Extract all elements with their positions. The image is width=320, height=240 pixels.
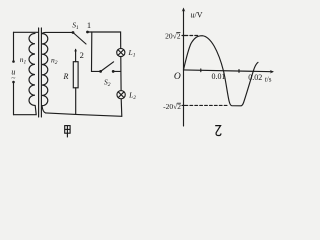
svg-text:L2: L2 xyxy=(128,91,136,102)
sine curve xyxy=(184,36,259,106)
wire: secondary bottom connector xyxy=(42,106,46,113)
y tick -20sqrt2 xyxy=(182,104,185,106)
wire: primary bottom xyxy=(14,106,37,115)
wire: primary left vertical (top segment) xyxy=(13,32,15,60)
svg-text:0.02: 0.02 xyxy=(248,73,262,82)
switch S2 right contact xyxy=(112,70,115,73)
svg-text:t/s: t/s xyxy=(265,76,272,84)
x-axis tick 0.005 xyxy=(200,69,202,72)
y-axis arrowhead xyxy=(182,8,186,12)
wire: between lamps xyxy=(120,57,122,91)
y-axis xyxy=(183,9,185,126)
x-axis arrowhead xyxy=(270,70,274,74)
svg-text:n2: n2 xyxy=(51,56,58,66)
wire: middle branch vertical xyxy=(92,32,101,71)
overbar for 20sqrt2 xyxy=(176,32,180,34)
AC source u terminal dots xyxy=(12,60,15,63)
x-axis xyxy=(184,70,273,72)
wire: primary left vertical (bottom segment) xyxy=(13,83,15,114)
switch S2 left contact xyxy=(99,70,102,73)
lamp L1 xyxy=(117,48,125,56)
svg-text:u/V: u/V xyxy=(191,11,203,20)
wire: top right from node 1 xyxy=(88,32,121,48)
svg-text:S1: S1 xyxy=(72,21,79,32)
svg-text:~: ~ xyxy=(11,73,15,82)
svg-text:0.01: 0.01 xyxy=(212,72,226,81)
svg-text:n1: n1 xyxy=(20,55,27,65)
x-axis tick 0.015 xyxy=(238,70,240,73)
graph axes xyxy=(182,8,274,127)
switch S1 pivot xyxy=(72,31,75,34)
svg-text:R: R xyxy=(62,72,68,81)
wire: bottom secondary xyxy=(46,113,122,116)
wire: primary top xyxy=(14,31,39,33)
dashed level +20sqrt2 xyxy=(185,35,200,37)
wire: resistor bottom lead xyxy=(75,88,77,115)
svg-text:L1: L1 xyxy=(128,48,136,59)
dashed level -20sqrt2 xyxy=(185,104,229,106)
switch S1 blade xyxy=(73,33,86,45)
resistor R box xyxy=(73,62,78,88)
node 2 contact arrow xyxy=(75,50,77,62)
svg-text:S2: S2 xyxy=(104,78,111,89)
transformer core xyxy=(38,28,40,117)
node 1 contact dot xyxy=(86,31,89,34)
switch S2 blade xyxy=(101,62,114,72)
svg-text:O: O xyxy=(174,72,181,82)
y tick +20sqrt2 xyxy=(182,35,185,37)
label yi (Chinese 乙) xyxy=(215,126,221,136)
secondary coil n2 xyxy=(42,34,48,106)
svg-text:2: 2 xyxy=(80,50,84,60)
wire: right vertical bottom xyxy=(120,99,123,116)
wire: secondary top to S1 xyxy=(42,32,73,33)
overbar for -20sqrt2 xyxy=(177,102,181,104)
label jia (Chinese 甲) xyxy=(65,126,70,138)
svg-text:1: 1 xyxy=(87,20,91,30)
primary coil n1 xyxy=(29,33,35,105)
lamp L2 xyxy=(117,91,125,99)
wire: S2 to lamp branch xyxy=(113,70,121,72)
